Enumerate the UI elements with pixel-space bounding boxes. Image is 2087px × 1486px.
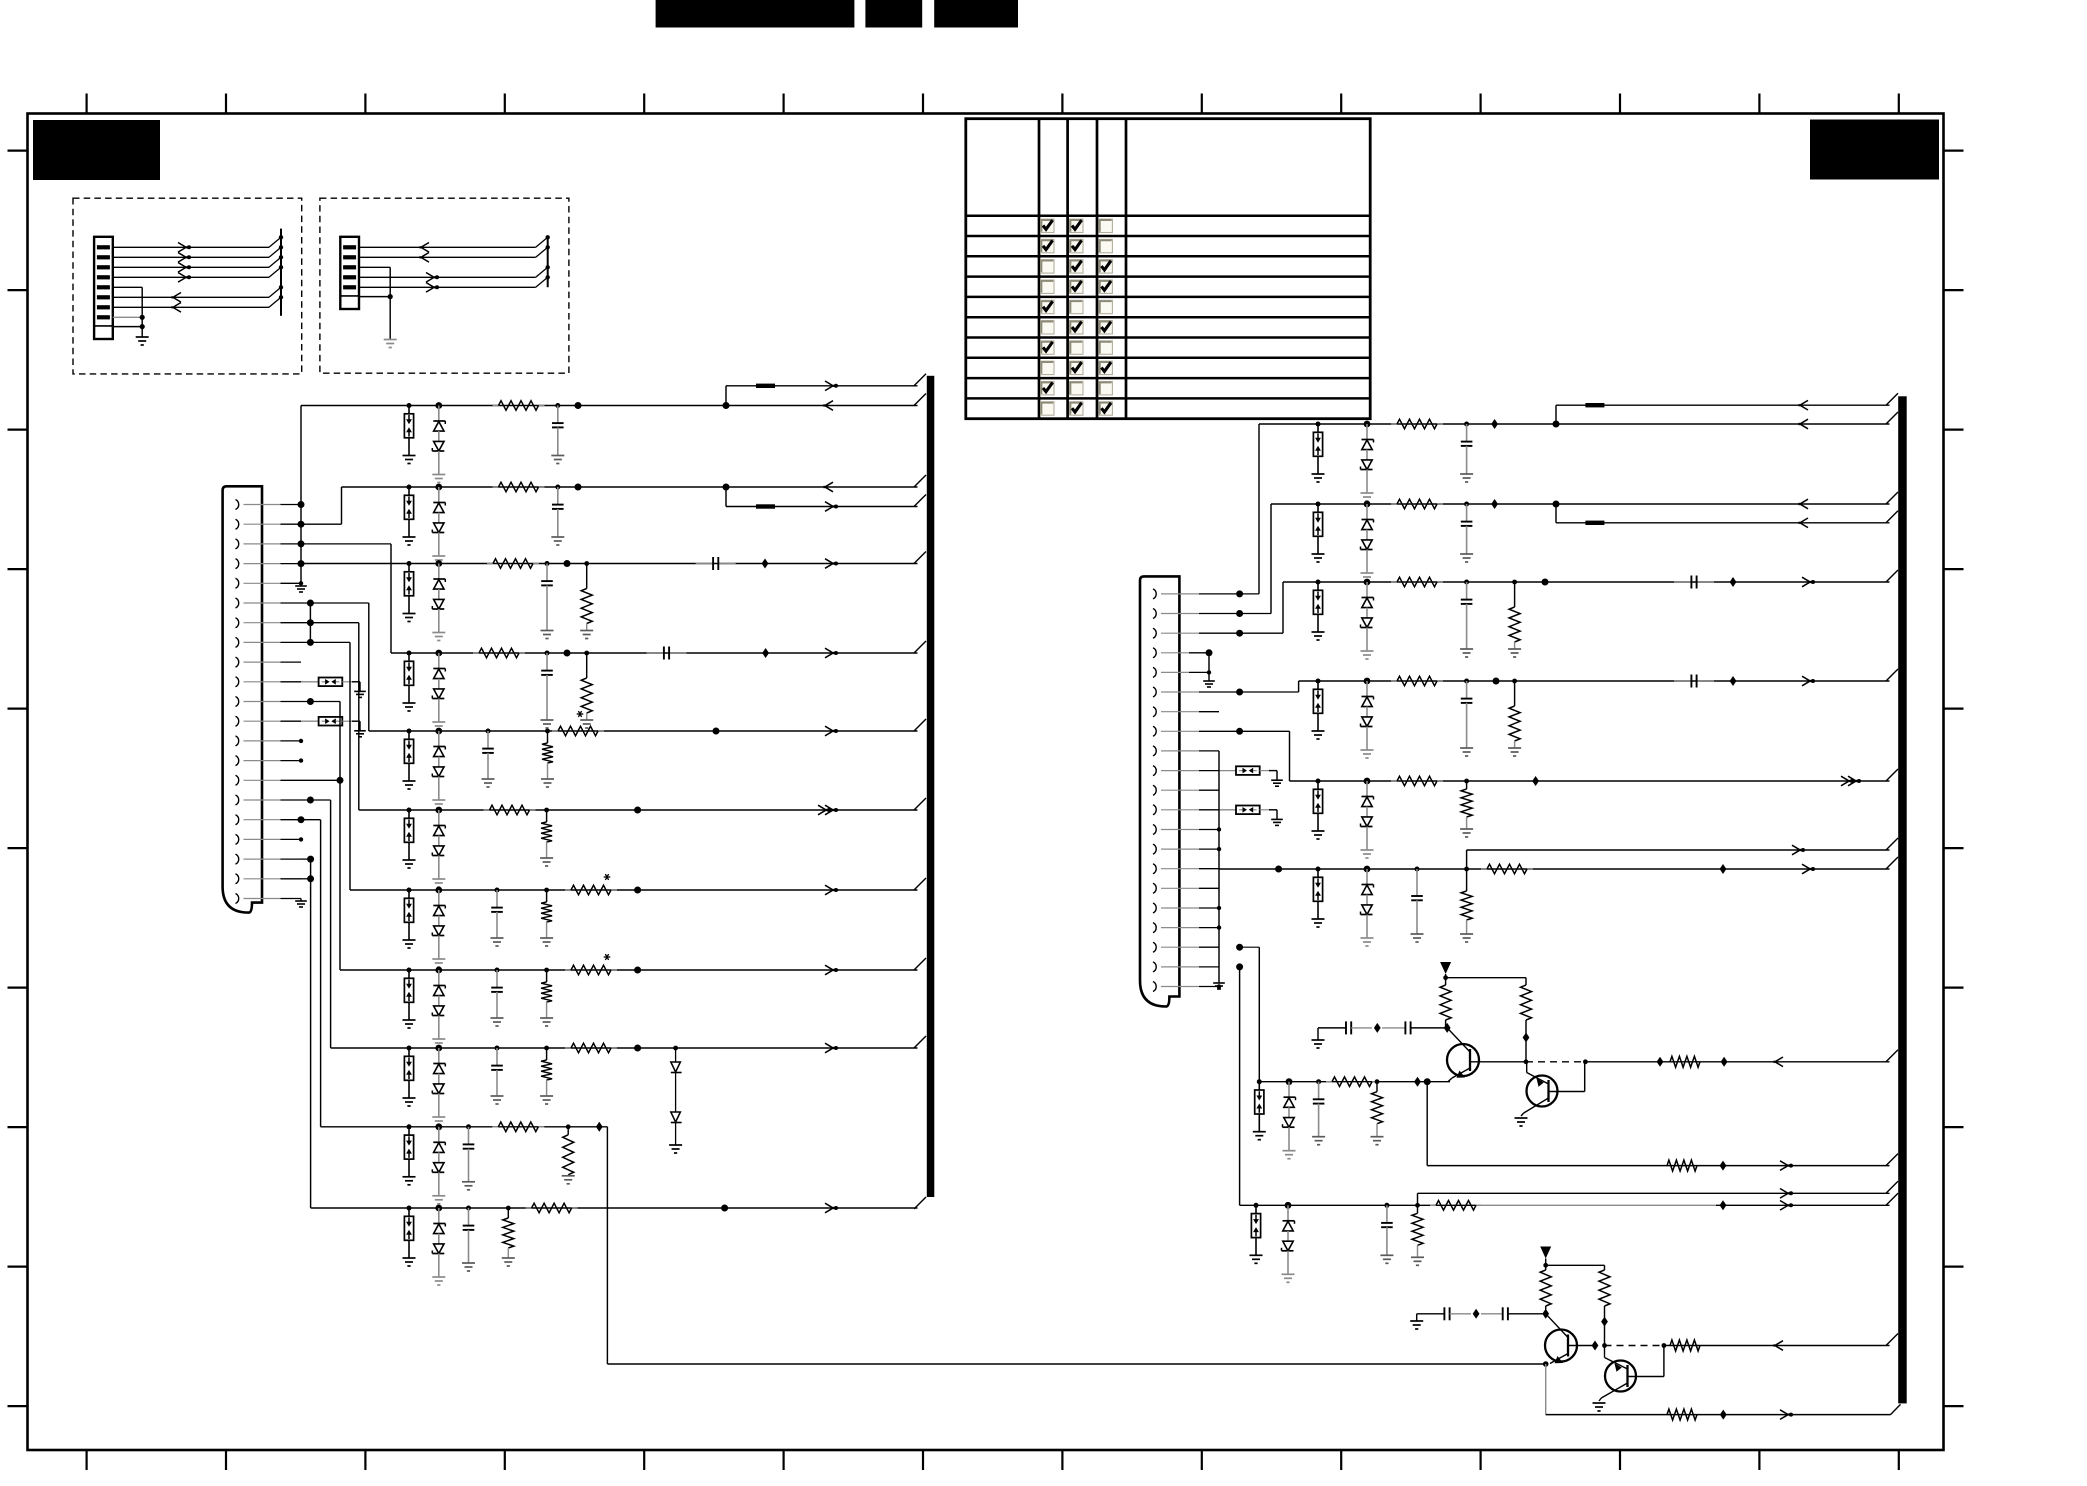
- wires J101 pins 6-7 with arrows: [113, 285, 283, 312]
- wire row Q1 input: [1236, 944, 1450, 1082]
- resistor R22 (row R2): [1391, 499, 1443, 509]
- transistor Q1: [1447, 1028, 1479, 1082]
- resistor R23 (row R3): [1391, 577, 1443, 587]
- asterisk row L7: [604, 874, 611, 880]
- resistor R21 (row R1): [1391, 419, 1443, 429]
- arrow row L6 out: [818, 805, 838, 815]
- spark gap SG2 (left pin 12): [301, 717, 366, 737]
- wire row L8: [301, 698, 926, 970]
- wire row L4: [301, 544, 926, 653]
- capacitor C1 (row L1): [551, 403, 564, 464]
- capacitor C16 (row R3 series): [1674, 576, 1714, 589]
- ground bias Q1: [1312, 1028, 1347, 1048]
- arrow row B1: [1780, 1161, 1793, 1171]
- diodes D5 (row L5): [432, 728, 445, 808]
- junction dot Q3 out2: [1662, 1343, 1667, 1348]
- connector J1 pin contacts: [236, 500, 239, 904]
- wire row R5: [1219, 728, 1898, 781]
- capacitor C2 (row L2): [551, 485, 564, 546]
- dashed box B: [320, 198, 569, 373]
- arrow row R4 out: [1802, 676, 1815, 686]
- suppressor Z16: [1312, 779, 1325, 840]
- diamond row R6: [1720, 864, 1727, 874]
- arrow row L9 out: [825, 1043, 838, 1053]
- capacitor C25 (bias Q3): [1481, 1307, 1546, 1320]
- resistor R36 (row B1): [1667, 1160, 1697, 1171]
- redacted label top-right: [1810, 120, 1939, 180]
- ground Q2: [1515, 1118, 1528, 1126]
- diodes D1 (row L1): [432, 402, 445, 482]
- resistor R35 (Q1 output): [1670, 1056, 1700, 1067]
- diamond row R2: [1491, 499, 1498, 509]
- transistor Q2: [1521, 1062, 1558, 1116]
- arrow row B3: [1780, 1201, 1793, 1211]
- bus bar left: [927, 376, 935, 1197]
- wire dashed Q1: [1526, 1061, 1585, 1063]
- diamond Q1 output: [1721, 1057, 1728, 1067]
- connector J102 (dashed box B): [340, 237, 359, 309]
- suppressor Z14: [1312, 580, 1325, 641]
- resistor R27 (row R5): [1391, 776, 1443, 786]
- wire Q3 base out: [1569, 1345, 1595, 1347]
- connector J1 body (left): [223, 486, 262, 912]
- capacitor C14 (row R2): [1460, 502, 1473, 563]
- diamond row R4: [1730, 676, 1737, 686]
- diodes D9 (row L9): [432, 1045, 445, 1125]
- wire row B2: [1418, 1181, 1899, 1205]
- junction dot pin18: [299, 837, 303, 841]
- wires J101 pins 1-4 with arrows: [113, 235, 283, 282]
- resistor R17 (row L10): [492, 1122, 544, 1132]
- diodes D16 (row R4): [1361, 678, 1374, 758]
- resistor R16 (row L9): [565, 1043, 617, 1053]
- capacitor C3 (row L3): [541, 561, 554, 639]
- resistor R9 (row L6): [484, 805, 536, 815]
- wire row R1: [1219, 412, 1898, 597]
- junction dot row L2: [575, 484, 582, 491]
- spark gap SG3 (right pin 10): [1219, 766, 1283, 786]
- wire row R4: [1219, 669, 1898, 696]
- capacitor C24 (bias Q3): [1444, 1307, 1471, 1320]
- junction dot row L4: [564, 650, 571, 657]
- diodes D3 (row L3): [432, 560, 445, 640]
- suppressor Z11: [403, 1206, 416, 1267]
- resistor R42 (Q3 output): [1670, 1340, 1700, 1351]
- suppressor Z5: [403, 729, 416, 790]
- wire row B3: [1236, 963, 1898, 1205]
- redacted title block 1: [656, 0, 855, 28]
- resistor R13 (row L8 shunt): [540, 968, 553, 1026]
- arrow row L1 in: [824, 401, 834, 411]
- diodes D7 (row L7): [432, 887, 445, 967]
- resistor R5 (row L4): [473, 648, 525, 658]
- transistor Q4: [1599, 1346, 1636, 1402]
- junction dot row L5: [713, 728, 720, 735]
- dashed box A: [73, 198, 302, 374]
- resistor R7 (row L5 shunt): [541, 729, 554, 787]
- junction dot pin14: [299, 758, 303, 762]
- diodes D8 (row L8): [432, 967, 445, 1047]
- resistor R15 (row L9 shunt): [540, 1046, 553, 1104]
- diodes D12 (row L11): [432, 1205, 445, 1285]
- spark gap SG1 (left pin 10): [301, 678, 366, 698]
- diodes D19 (Q1 row): [1283, 1078, 1296, 1158]
- diamond row B3: [1720, 1200, 1727, 1210]
- arrow row L7 out: [825, 885, 838, 895]
- resistor R3 (row L3): [487, 559, 539, 569]
- resistor R28 (row R5 shunt): [1460, 779, 1473, 837]
- resistor R8 (row L5): [552, 726, 604, 736]
- diamond Q3 out: [1592, 1341, 1599, 1351]
- suppressor Z13: [1312, 502, 1325, 563]
- resistor R18 (row L10 shunt): [562, 1124, 575, 1183]
- resistor R26 (row R4 shunt): [1508, 679, 1521, 756]
- resistor R37 (row B3 shunt): [1411, 1203, 1424, 1265]
- wire row L9: [301, 797, 926, 1049]
- diodes D15 (row R3): [1361, 579, 1374, 659]
- capacitor C7 (row L5): [482, 729, 495, 788]
- capacitor C10 (row L9): [491, 1046, 504, 1105]
- connector J101 (dashed box A): [94, 237, 113, 339]
- branch row L1 out: [723, 374, 927, 409]
- capacitor C13 (row R1): [1460, 422, 1473, 483]
- junction diamond Q3 collector: [1542, 1309, 1549, 1319]
- diamond bias Q3b: [1601, 1317, 1608, 1327]
- junction dot row R4: [1493, 678, 1500, 685]
- resistor R14 (row L8): [565, 965, 617, 975]
- suppressor Z15: [1312, 679, 1325, 740]
- wire Q3 emitter row: [1546, 1364, 1901, 1415]
- transistor Q3: [1545, 1314, 1577, 1364]
- diodes D18 (row R6): [1361, 866, 1374, 946]
- table grid: [966, 119, 1370, 419]
- junction dot row L8: [634, 967, 641, 974]
- wire dashed Q3: [1605, 1345, 1664, 1347]
- wire Q3 output: [1664, 1334, 1898, 1346]
- connector J1 pin leads: [244, 505, 302, 899]
- capacitor C15 (row R3): [1460, 580, 1473, 658]
- wire row R3: [1219, 570, 1898, 637]
- supply arrow V2: [1540, 1247, 1604, 1271]
- trunk net right (pin 9-21): [1213, 751, 1225, 989]
- wire row R6: [1219, 857, 1898, 873]
- suppressor Z1: [403, 403, 416, 464]
- ground bias Q3: [1410, 1314, 1444, 1329]
- diodes D13 (row R1): [1361, 421, 1374, 501]
- wire row L1: [301, 394, 926, 406]
- resistor R24 (row R3 shunt): [1508, 580, 1521, 657]
- suppressor Z19: [1250, 1203, 1263, 1264]
- branch row R6: [1467, 838, 1898, 869]
- diamond bias Q1b: [1523, 1033, 1530, 1043]
- trunk net B (pins 6-8): [307, 600, 314, 646]
- suppressor Z10: [403, 1124, 416, 1185]
- capacitor C11 (row L10): [462, 1124, 475, 1190]
- suppressor Z4: [403, 651, 416, 712]
- arrow Q3 output: [1774, 1341, 1784, 1351]
- asterisk row L5: [577, 711, 584, 717]
- junction dot row L3: [564, 560, 571, 567]
- suppressor Z18: [1253, 1079, 1266, 1140]
- junction dot Q1 out2: [1583, 1059, 1588, 1064]
- arrow row R6 out: [1802, 864, 1815, 874]
- resistor R39 (bias Q3): [1540, 1270, 1551, 1314]
- resistor R6 (row L4 shunt): [580, 651, 593, 728]
- junction dot row L6: [634, 807, 641, 814]
- diamond row L10: [596, 1122, 603, 1132]
- resistor R25 (row R4): [1391, 676, 1443, 686]
- capacitor C19 (row R6): [1411, 867, 1424, 943]
- resistor R34 (bias Q1b): [1521, 985, 1532, 1062]
- junction dot Q3 out: [1602, 1343, 1607, 1348]
- wire Q1 base out: [1471, 1061, 1526, 1063]
- capacitor C22 (bias Q1): [1382, 1021, 1446, 1034]
- redacted title block 2: [865, 0, 922, 28]
- connector J2 body (right): [1140, 576, 1179, 1006]
- capacitor C21 (bias Q1): [1346, 1021, 1372, 1034]
- suppressor Z2: [403, 485, 416, 546]
- wire row L6: [301, 623, 926, 810]
- connector J2 pin leads: [1161, 594, 1219, 987]
- arrow row L8 out: [825, 965, 838, 975]
- wire row L7: [301, 642, 926, 890]
- arrow Q1 output: [1774, 1057, 1784, 1067]
- asterisk row L8: [604, 954, 611, 960]
- diodes D10 (row L9 clamp): [669, 1046, 682, 1153]
- capacitor C4 (row L3 series): [696, 557, 736, 570]
- suppressor Z7: [403, 888, 416, 949]
- wire route L10 to Q3: [607, 1127, 1545, 1364]
- junction dot row L9: [634, 1045, 641, 1052]
- capacitor C18 (row R4 series): [1674, 675, 1714, 688]
- diodes D6 (row L6): [432, 807, 445, 887]
- resistor R12 (row L7): [565, 885, 617, 895]
- junction dot pin13: [299, 739, 303, 743]
- resistor R10 (row L6 shunt): [540, 808, 553, 866]
- junction dot Q1 out: [1524, 1059, 1529, 1064]
- arrow row L3 out: [825, 559, 838, 569]
- ground pin 21 left: [295, 899, 307, 908]
- wire row L2: [301, 475, 926, 524]
- diamond row L3: [762, 559, 769, 569]
- resistor R11 (row L7 shunt): [540, 888, 553, 946]
- resistor R20 (row L11): [526, 1203, 578, 1213]
- connector J2 pin contacts: [1153, 589, 1156, 992]
- spark gap SG4 (right pin 12): [1219, 806, 1283, 826]
- capacitor C12 (row L11): [462, 1206, 475, 1272]
- junction dot row L7: [634, 887, 641, 894]
- arrow row L2 in: [824, 482, 834, 492]
- suppressor Z17: [1312, 867, 1325, 928]
- suppressor Z6: [403, 808, 416, 869]
- junction dot row R3: [1542, 579, 1549, 586]
- arrow row B2: [1780, 1189, 1793, 1199]
- resistor R29 (row R6 shunt): [1460, 867, 1473, 942]
- diodes D20 (row B3): [1282, 1202, 1295, 1282]
- diodes D17 (row R5): [1361, 778, 1374, 858]
- diamond row B1: [1720, 1161, 1727, 1171]
- diamond row R5: [1532, 776, 1539, 786]
- suppressor Z9: [403, 1046, 416, 1107]
- resistor R4 (row L3 shunt): [580, 561, 593, 638]
- junction dot pin21 right: [1217, 984, 1221, 988]
- branch row L2 out: [723, 484, 927, 512]
- resistor R2 (row L2): [493, 482, 545, 492]
- suppressor Z3: [403, 561, 416, 622]
- arrow row R2 in: [1799, 499, 1809, 509]
- resistor R41 (Q3 emitter row): [1667, 1409, 1697, 1420]
- diodes D14 (row R2): [1361, 501, 1374, 581]
- diodes D11 (row L10): [432, 1123, 445, 1203]
- capacitor C9 (row L8): [491, 968, 504, 1027]
- wire row L11: [301, 856, 926, 1209]
- resistor R31 (Q1 row): [1326, 1077, 1378, 1087]
- resistor R30 (row R6): [1481, 864, 1533, 874]
- resistor R40 (bias Q3b): [1599, 1270, 1610, 1346]
- wire row L10: [298, 816, 608, 1127]
- diodes D2 (row L2): [432, 484, 445, 564]
- branch row R1: [1553, 393, 1899, 427]
- diodes D4 (row L4): [432, 650, 445, 730]
- arrow row L11 out: [825, 1203, 838, 1213]
- ground pins 4-5 right: [1203, 649, 1215, 687]
- junction diamond Q1 collector: [1444, 1023, 1451, 1033]
- arrow row R5 out: [1841, 776, 1861, 786]
- capacitor C23 (row B3): [1380, 1203, 1393, 1264]
- resistor R19 (row L11 shunt): [502, 1206, 515, 1266]
- junction dot Q1 row: [1424, 1078, 1431, 1085]
- diamond row L4: [762, 648, 769, 658]
- suppressor Z12: [1312, 422, 1325, 483]
- bus line box B: [547, 237, 549, 287]
- bus line box A: [280, 229, 282, 316]
- capacitor C20 (Q1 row): [1312, 1079, 1325, 1145]
- supply arrow V1: [1440, 962, 1526, 985]
- ground net box A: [113, 287, 149, 345]
- arrow row R3 out: [1802, 577, 1815, 587]
- diamond bias chain Q3: [1473, 1309, 1480, 1319]
- arrow row L4 out: [825, 648, 838, 658]
- redacted title block 3: [934, 0, 1018, 28]
- arrow Q3 emitter row: [1780, 1410, 1793, 1420]
- capacitor C6 (row L4 series): [647, 647, 687, 660]
- diamond row R3: [1730, 577, 1737, 587]
- diamond row R1: [1491, 419, 1498, 429]
- resistor R33 (bias Q1): [1440, 985, 1451, 1028]
- junction dot row L1: [575, 402, 582, 409]
- ground net box B: [359, 267, 397, 347]
- wire Q2 base: [1550, 1062, 1585, 1092]
- bus bar right: [1898, 396, 1907, 1403]
- capacitor C8 (row L7): [491, 888, 504, 947]
- capacitor C5 (row L4): [541, 651, 554, 729]
- wire row R2: [1219, 492, 1898, 617]
- table checkboxes: [1041, 219, 1113, 415]
- diamond bias chain Q1: [1374, 1023, 1381, 1033]
- wire Q1 output: [1585, 1050, 1898, 1067]
- arrow row R1 in: [1799, 419, 1809, 429]
- trunk net A (pins 1-5): [295, 406, 307, 593]
- redacted label top-left: [33, 120, 160, 180]
- suppressor Z8: [403, 968, 416, 1029]
- branch row R2: [1553, 501, 1899, 528]
- resistor R1 (row L1): [493, 401, 545, 411]
- junction dot Q3 emitter: [1543, 1361, 1549, 1367]
- wires J102 with arrows: [359, 235, 550, 292]
- diamond Q3 emitter row: [1720, 1410, 1727, 1420]
- ground Q4: [1593, 1403, 1606, 1411]
- wire row L3: [301, 552, 926, 564]
- resistor R38 (row B3): [1430, 1201, 1482, 1211]
- arrow row L5 out: [825, 726, 838, 736]
- resistor R32 (Q1 row shunt): [1371, 1079, 1384, 1144]
- wire row L5: [301, 603, 926, 731]
- junction dot row L11: [721, 1205, 728, 1212]
- diamond Q1 row: [1414, 1077, 1421, 1087]
- wire Q4 base: [1629, 1346, 1664, 1377]
- wire row B1: [1427, 1082, 1898, 1166]
- capacitor C17 (row R4): [1460, 679, 1473, 757]
